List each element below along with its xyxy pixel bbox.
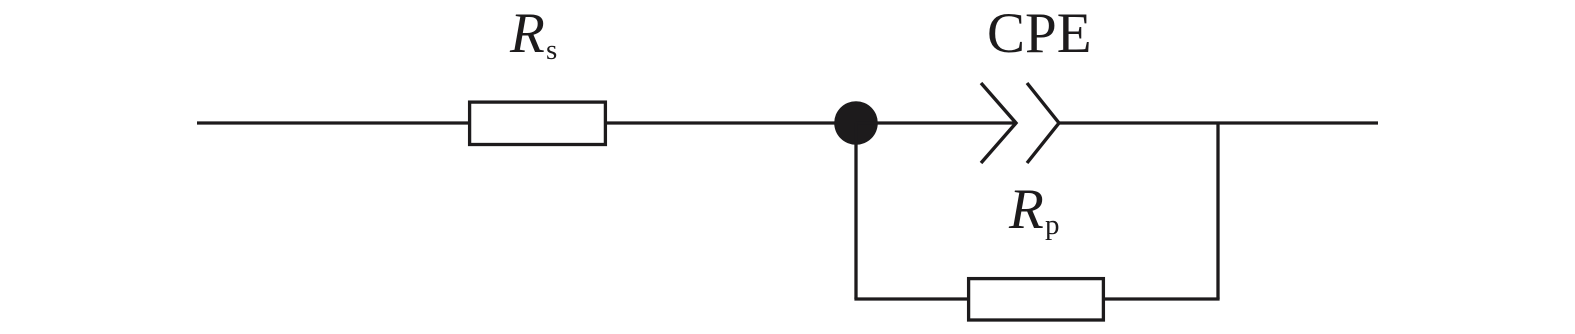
wire: bottom lead into Rp: [854, 297, 970, 300]
label CPE: [987, 2, 1092, 65]
svg-text:R: R: [1008, 178, 1044, 241]
svg-text:s: s: [546, 34, 557, 66]
resistor Rs: [470, 102, 606, 144]
label Rp: [1008, 178, 1060, 241]
svg-text:CPE: CPE: [987, 2, 1092, 65]
wire: left branch down from node: [854, 123, 857, 299]
resistor Rp: [969, 279, 1104, 320]
wire: CPE to right end: [1059, 121, 1378, 124]
wire: left lead into Rs: [197, 121, 471, 124]
wire: Rp to right branch: [1103, 297, 1220, 300]
CPE element U1 (double chevron): [981, 83, 1059, 163]
label Rs: [509, 2, 557, 66]
wire: right branch up to main line: [1216, 123, 1219, 299]
svg-text:R: R: [509, 2, 545, 65]
svg-text:p: p: [1045, 209, 1060, 241]
wire: Rs to node: [606, 121, 856, 124]
wire: node to CPE: [856, 121, 1015, 124]
node junction dot: [834, 101, 878, 145]
